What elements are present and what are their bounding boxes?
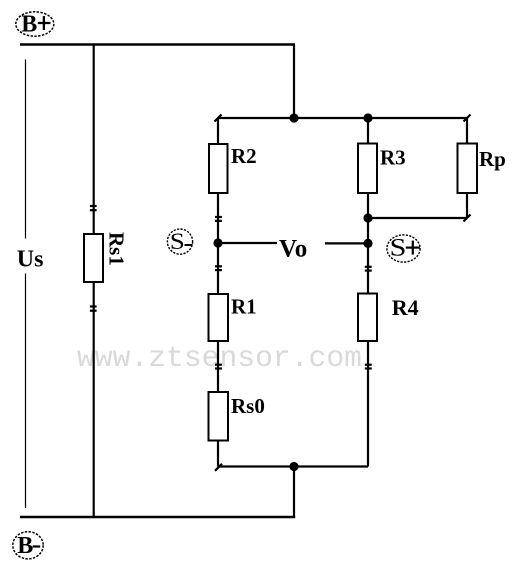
wire Rp bottom lead <box>466 193 468 218</box>
corner tick Rp link right end <box>464 215 471 222</box>
resistor Rs0 <box>209 392 229 441</box>
svg-text:B: B <box>17 533 33 559</box>
tick marks below R2 <box>215 217 222 221</box>
wire top rail B+ <box>20 43 295 46</box>
svg-text:Us: Us <box>17 246 44 272</box>
wire Rs1 branch lower <box>93 282 95 517</box>
node B- terminal ellipse <box>13 532 43 559</box>
resistor R1 <box>209 294 229 341</box>
svg-text:www.ztsensor.com: www.ztsensor.com <box>77 341 362 375</box>
wire Us dimension line lower <box>25 274 27 509</box>
node S+ terminal circle <box>387 234 420 262</box>
wire Us dimension line upper <box>25 60 27 239</box>
wire bridge top bus <box>218 117 467 119</box>
wire bridge bottom bus <box>218 465 368 467</box>
wire R3 bottom lead to S+ node <box>367 193 369 294</box>
junction dot S+ node <box>363 239 372 248</box>
resistor Rs1 <box>84 234 103 282</box>
tick marks below R4 <box>365 365 372 369</box>
junction dot bottom bus <box>289 462 298 471</box>
wire Vo right segment <box>325 242 368 244</box>
junction dot top bus feed <box>289 113 298 122</box>
wire Rp link to R3 branch <box>368 217 467 219</box>
tick marks above R4 <box>365 267 372 271</box>
node S- terminal circle <box>167 229 192 254</box>
wire Rp top lead <box>466 118 468 144</box>
junction dot top bus R3 <box>363 113 372 122</box>
wire Rs1 branch upper <box>93 45 95 235</box>
svg-text:R3: R3 <box>380 146 406 170</box>
wire R4 bottom lead <box>367 341 369 467</box>
corner tick bottom-left of bus <box>215 464 222 471</box>
corner tick top-left of bus <box>215 115 222 122</box>
svg-text:Vo: Vo <box>279 236 307 263</box>
wire Vo left segment <box>218 242 277 244</box>
svg-text:B: B <box>21 12 37 38</box>
svg-text:R2: R2 <box>231 144 257 168</box>
wire bridge feed from top rail <box>293 45 295 119</box>
wire bottom rail B- <box>20 516 295 519</box>
svg-text:R4: R4 <box>392 295 419 320</box>
wire R3 top lead <box>367 118 369 144</box>
junction dot Rp link <box>363 213 372 222</box>
wire bridge return to bottom rail <box>293 467 295 518</box>
wire R2 bottom lead to S- node <box>217 193 219 294</box>
node B+ terminal ellipse <box>16 12 54 38</box>
svg-text:S: S <box>390 234 407 262</box>
resistor R3 <box>358 144 377 194</box>
corner tick top-right of bus <box>464 115 471 122</box>
resistor R2 <box>209 144 228 193</box>
wire R2 top lead <box>217 118 219 144</box>
tick marks above R1 <box>215 266 222 270</box>
svg-text:Rs0: Rs0 <box>231 394 265 418</box>
svg-text:S: S <box>170 230 185 255</box>
wire R1 to Rs0 <box>217 341 219 392</box>
svg-text:R1: R1 <box>231 295 257 319</box>
junction dot S- node <box>213 238 222 247</box>
svg-text:Rs1: Rs1 <box>105 232 129 266</box>
tick marks between R1 and Rs0 <box>215 365 222 369</box>
tick marks above Rs1 <box>90 206 97 210</box>
resistor R4 <box>358 294 377 342</box>
wire Rs0 bottom lead <box>217 441 219 467</box>
resistor Rp <box>458 144 478 194</box>
svg-text:Rp: Rp <box>479 147 506 171</box>
tick marks below Rs1 <box>90 307 97 311</box>
